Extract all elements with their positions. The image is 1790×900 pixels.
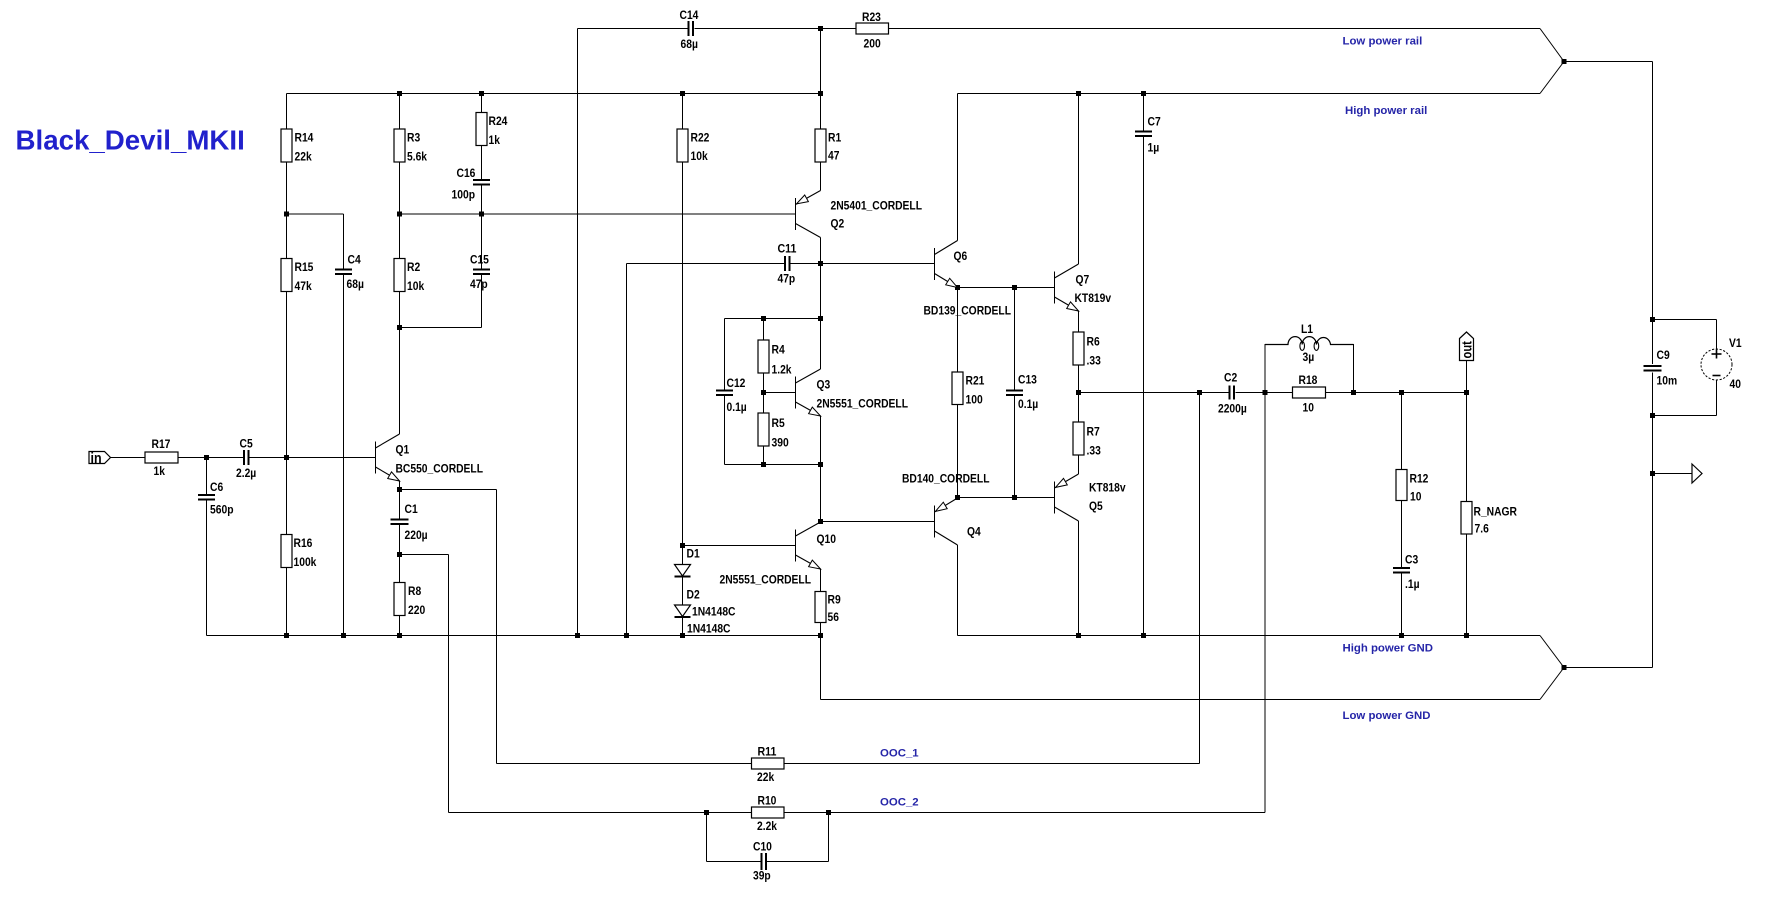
junction C3 bottom [1399, 633, 1404, 638]
svg-text:R9: R9 [828, 593, 841, 607]
svg-text:0.1µ: 0.1µ [1018, 397, 1038, 411]
svg-text:Q6: Q6 [954, 249, 968, 263]
wire Q3 base y=392.5 [764, 392, 796, 394]
junction C10 left [704, 810, 709, 815]
svg-text:Q5: Q5 [1089, 499, 1103, 513]
svg-text:200: 200 [864, 37, 881, 51]
junction rails convergence [1562, 59, 1567, 64]
svg-text:10: 10 [1410, 490, 1421, 504]
svg-text:BC550_CORDELL: BC550_CORDELL [396, 462, 484, 476]
svg-text:R8: R8 [408, 584, 421, 598]
wire R12/C3 column x=1401.5 [1401, 393, 1403, 636]
capacitor C16 [473, 179, 490, 181]
svg-text:1N4148C: 1N4148C [692, 605, 736, 619]
svg-text:R4: R4 [772, 343, 785, 357]
svg-text:High power rail: High power rail [1345, 105, 1427, 117]
resistor R_NAGR [1461, 502, 1472, 535]
port out [1460, 332, 1474, 361]
svg-text:BD139_CORDELL: BD139_CORDELL [924, 304, 1012, 318]
wire GND to V1 column [1564, 416, 1653, 668]
wire Q7/Q5/R6/R7 column x=1078.5 [1078, 94, 1080, 636]
wire Q4 collector x=957.5 [957, 545, 959, 636]
svg-text:Black_Devil_MKII: Black_Devil_MKII [16, 125, 245, 156]
svg-text:0.1µ: 0.1µ [727, 400, 747, 414]
junction Q2 collector node [818, 261, 823, 266]
svg-text:C6: C6 [210, 480, 223, 494]
resistor R5 [758, 413, 769, 446]
svg-text:3µ: 3µ [1303, 350, 1315, 364]
wire C6 column x=206.5 [206, 458, 208, 636]
svg-text:C3: C3 [1405, 553, 1418, 567]
svg-text:R_NAGR: R_NAGR [1474, 505, 1518, 519]
junction R_NAGR bottom [1464, 633, 1469, 638]
svg-text:C13: C13 [1018, 373, 1037, 387]
junction Q7 collector rail [1076, 91, 1081, 96]
svg-text:C11: C11 [778, 242, 797, 256]
wire high power rail (y=93.5) [287, 62, 1565, 94]
junction OOC_1 tap [1197, 390, 1202, 395]
svg-text:V1: V1 [1729, 336, 1742, 350]
wire C10 branch [707, 813, 829, 862]
resistor R1 [815, 129, 826, 162]
wire C12/R5 bottom y=464.5 [725, 464, 821, 466]
junction out port node [1464, 390, 1469, 395]
wire output stub to arrow y=473.5 [1653, 473, 1692, 475]
wire OOC_2 column x=1265 [1264, 393, 1266, 813]
resistor R21 [952, 372, 963, 405]
svg-text:C7: C7 [1148, 115, 1161, 129]
junction C10 right [826, 810, 831, 815]
resistor R6 [1073, 332, 1084, 365]
svg-text:2N5401_CORDELL: 2N5401_CORDELL [831, 199, 923, 213]
wire out-port/R_NAGR column x=1466.5 [1466, 361, 1468, 636]
svg-text:10k: 10k [407, 279, 424, 293]
junction C13 top [1012, 285, 1017, 290]
wire bias row y=214 [287, 213, 796, 215]
junction C6 top [204, 455, 209, 460]
junction R5 bottom node [761, 462, 766, 467]
svg-text:D1: D1 [687, 547, 700, 561]
svg-text:Low power rail: Low power rail [1343, 36, 1423, 48]
svg-text:C15: C15 [470, 253, 489, 267]
resistor R22 [677, 129, 688, 162]
svg-text:1N4148C: 1N4148C [687, 622, 731, 636]
svg-text:R18: R18 [1299, 373, 1318, 387]
transistor Q10 (2N5551, NPN) [796, 522, 821, 569]
wire C11 node y=263.5 [627, 263, 935, 265]
junction Q10 collector node [818, 519, 823, 524]
svg-text:Q3: Q3 [817, 378, 831, 392]
wire Q1 base y=457.5 [111, 457, 376, 459]
svg-text:R7: R7 [1087, 425, 1100, 439]
capacitor C15 [473, 269, 490, 271]
capacitor C11 [784, 256, 786, 271]
junction Q4 emitter node [955, 495, 960, 500]
wire C4 column x=343.5 [343, 214, 345, 636]
svg-text:OOC_1: OOC_1 [880, 748, 919, 760]
capacitor C1 [391, 519, 409, 521]
svg-text:2.2k: 2.2k [757, 819, 777, 833]
svg-text:47p: 47p [778, 272, 796, 286]
svg-text:C16: C16 [457, 166, 476, 180]
svg-text:Q2: Q2 [831, 217, 845, 231]
svg-text:D2: D2 [687, 588, 700, 602]
wire V1 branch [1653, 320, 1717, 416]
svg-text:Q10: Q10 [817, 532, 837, 546]
svg-text:R11: R11 [758, 745, 777, 759]
svg-text:OOC_2: OOC_2 [880, 797, 919, 809]
capacitor C3 [1393, 567, 1410, 569]
svg-text:R5: R5 [772, 416, 785, 430]
junction C7 bottom [1141, 633, 1146, 638]
svg-text:40: 40 [1730, 377, 1741, 391]
svg-text:R12: R12 [1410, 472, 1429, 486]
svg-text:R3: R3 [407, 131, 420, 145]
transistor Q3 (2N5551, NPN) [796, 369, 821, 416]
svg-text:2N5551_CORDELL: 2N5551_CORDELL [817, 397, 909, 411]
capacitor C5 [243, 450, 245, 465]
resistor R23 [856, 23, 889, 34]
svg-text:220µ: 220µ [405, 528, 428, 542]
junction V1 top [1650, 317, 1655, 322]
svg-text:C2: C2 [1224, 371, 1237, 385]
transistor Q6 (BD139, NPN) [935, 241, 958, 288]
wire C9 column [1652, 320, 1654, 416]
voltage source V1 [1701, 349, 1732, 380]
junction R16 bottom [284, 633, 289, 638]
svg-text:2N5551_CORDELL: 2N5551_CORDELL [720, 573, 812, 587]
resistor R16 [281, 535, 292, 568]
svg-text:10m: 10m [1657, 374, 1678, 388]
wire Q1 emitter to feedback y=489.5 [400, 490, 497, 764]
svg-text:39p: 39p [753, 869, 771, 883]
junction R3 top [397, 91, 402, 96]
junction R9 bottom / low GND feed [818, 633, 823, 638]
wire R1/Q2/Q3 column x=820.5 [820, 29, 822, 636]
svg-text:KT818v: KT818v [1089, 481, 1126, 495]
junction R22 top [680, 91, 685, 96]
svg-text:C14: C14 [680, 8, 699, 22]
resistor R12 [1396, 470, 1407, 501]
capacitor C14 [688, 21, 690, 36]
wire Q6 emitter / R21 column x=957.5 [957, 288, 959, 498]
svg-text:R14: R14 [295, 131, 314, 145]
wire low power GND (y=699.5) [821, 636, 1565, 700]
wire R22/diode column x=682.5 [682, 94, 684, 636]
svg-text:R15: R15 [295, 260, 314, 274]
svg-text:R2: R2 [407, 260, 420, 274]
resistor R11 [752, 758, 785, 769]
wire Q10 collector to Q4 base y=521.5 [821, 521, 935, 523]
svg-text:10: 10 [1303, 401, 1314, 415]
resistor R14 [281, 129, 292, 162]
wire OOC_2 row y=812.5 [449, 812, 1266, 814]
junction C1/R8 node [397, 552, 402, 557]
wire OOC_1 row y=763.5 [497, 763, 1200, 765]
svg-text:High power GND: High power GND [1343, 643, 1434, 655]
resistor R10 [752, 807, 785, 818]
capacitor C13 [1006, 390, 1023, 392]
svg-text:1µ: 1µ [1148, 141, 1160, 155]
capacitor C7 [1135, 131, 1152, 133]
svg-text:1.2k: 1.2k [772, 363, 792, 377]
junction Q5 collector GND [1076, 633, 1081, 638]
svg-text:in: in [91, 450, 102, 467]
wire rail to V1 column [1564, 62, 1653, 320]
svg-text:100k: 100k [294, 555, 317, 569]
resistor R8 [394, 583, 405, 616]
capacitor C6 [198, 494, 215, 496]
wire output rail y=392.5 [1079, 392, 1467, 394]
svg-text:R16: R16 [294, 536, 313, 550]
wire R3/R2/Q1 column x=399.5 [399, 94, 401, 636]
svg-text:out: out [1460, 341, 1475, 359]
svg-text:10k: 10k [691, 149, 708, 163]
transistor Q2 (2N5401, PNP) [796, 191, 821, 238]
junction x577 ground [575, 633, 580, 638]
wire low power rail (top, y=28.5) [578, 29, 1565, 62]
svg-text:Q1: Q1 [396, 443, 410, 457]
svg-text:KT819v: KT819v [1075, 291, 1112, 305]
junction C7 top [1141, 91, 1146, 96]
wire C12/R4 top y=318.5 [725, 318, 821, 320]
svg-text:Q4: Q4 [967, 525, 981, 539]
svg-text:2.2µ: 2.2µ [236, 466, 256, 480]
junction C2/L1 node [1263, 390, 1268, 395]
capacitor C9 [1644, 365, 1662, 367]
svg-text:BD140_CORDELL: BD140_CORDELL [902, 472, 990, 486]
svg-text:C5: C5 [240, 437, 253, 451]
resistor R7 [1073, 422, 1084, 455]
inductor L1 [1265, 337, 1354, 351]
transistor Q5 (KT818v, PNP) [1055, 474, 1079, 521]
svg-text:C10: C10 [753, 840, 772, 854]
wire R4/R5 column x=763.5 [763, 319, 765, 465]
svg-text:.1µ: .1µ [1405, 577, 1420, 591]
wire C12 column x=724.5 [724, 319, 726, 465]
junction C5/R15 node [284, 455, 289, 460]
junction D1 top node [680, 543, 685, 548]
svg-text:5.6k: 5.6k [407, 150, 427, 164]
svg-text:Low power GND: Low power GND [1343, 710, 1431, 722]
svg-text:68µ: 68µ [347, 277, 364, 291]
junction R4 top node [761, 316, 766, 321]
capacitor C4 [335, 269, 352, 271]
wire L1 branch stubs [1265, 344, 1354, 393]
svg-text:100: 100 [966, 393, 983, 407]
transistor Q7 (KT819v, NPN) [1055, 264, 1079, 311]
svg-text:C9: C9 [1657, 348, 1670, 362]
svg-text:R22: R22 [691, 131, 710, 145]
junction Q2-Q3 column y=318.5 [818, 316, 823, 321]
junction R24 top [479, 91, 484, 96]
wire high power GND (y=635.5) [207, 636, 1565, 668]
svg-text:22k: 22k [757, 770, 774, 784]
capacitor C10 [761, 853, 763, 870]
svg-text:56: 56 [828, 610, 839, 624]
transistor Q4 (BD140, PNP) [935, 498, 958, 545]
junction C4 bottom [341, 633, 346, 638]
wire D1 to Q10 base y=545.5 [683, 545, 796, 547]
svg-text:47k: 47k [295, 279, 312, 293]
wire Q6 emitter to Q7 base y=287.5 [958, 287, 1055, 289]
capacitor C12 [716, 390, 733, 392]
diode D1 (1N4148) [675, 565, 691, 578]
resistor R2 [394, 259, 405, 292]
junction Q3 emitter column y=464.5 [818, 462, 823, 467]
svg-text:47: 47 [828, 149, 839, 163]
resistor R17 [145, 452, 178, 463]
wire C13 column x=1014.5 [1014, 288, 1016, 498]
svg-text:.33: .33 [1087, 444, 1101, 458]
junction R1 top [818, 91, 823, 96]
wire OOC_1 column x=1199.5 [1199, 393, 1201, 764]
junction C13 bottom [1012, 495, 1017, 500]
resistor R24 [476, 113, 487, 146]
svg-text:47p: 47p [470, 277, 488, 291]
svg-text:R23: R23 [862, 10, 881, 24]
junction GND convergence [1562, 665, 1567, 670]
wire C14-left to signal ground x=577.5 [577, 29, 579, 636]
junction R24/C16/C15 [479, 212, 484, 217]
port in [89, 452, 111, 464]
svg-text:C12: C12 [727, 376, 746, 390]
wire C1 bottom to R10 feed y=554.5 [400, 555, 449, 813]
svg-text:2200µ: 2200µ [1218, 402, 1247, 416]
resistor R9 [815, 592, 826, 623]
wire R21 bottom to Q5 base y=497.5 [958, 497, 1055, 499]
svg-text:1k: 1k [489, 133, 500, 147]
wire Q6 collector x=957.5 [957, 94, 959, 241]
resistor R4 [758, 340, 769, 373]
svg-text:R1: R1 [828, 131, 841, 145]
junction output stub [1650, 471, 1655, 476]
resistor R3 [394, 129, 405, 162]
svg-text:R24: R24 [489, 114, 508, 128]
junction R8 bottom [397, 633, 402, 638]
svg-text:220: 220 [408, 603, 425, 617]
wire C11-left ground column x=626.5 [626, 264, 628, 636]
wire R14 column x=286.5 [286, 94, 288, 636]
svg-text:R17: R17 [152, 437, 171, 451]
wire R2 bottom to C15 bottom y=327.5 [400, 275, 482, 328]
junction R4/R5 node [761, 390, 766, 395]
svg-text:R21: R21 [966, 374, 985, 388]
junction C11-ground [624, 633, 629, 638]
resistor R15 [281, 259, 292, 292]
svg-text:R10: R10 [758, 794, 777, 808]
svg-text:7.6: 7.6 [1475, 522, 1489, 536]
junction D2 bottom [680, 633, 685, 638]
junction C14/R23 node [818, 26, 823, 31]
svg-text:100p: 100p [452, 188, 476, 202]
svg-text:L1: L1 [1301, 322, 1313, 336]
junction R3/R2 [397, 212, 402, 217]
junction R12 top [1399, 390, 1404, 395]
wire C7 column x=1143.5 [1143, 94, 1145, 636]
svg-text:R6: R6 [1087, 335, 1100, 349]
junction R6/R7 output node [1076, 390, 1081, 395]
transistor Q1 (BC550, NPN) [376, 434, 400, 481]
svg-text:390: 390 [772, 436, 789, 450]
svg-text:68µ: 68µ [681, 37, 698, 51]
diode D2 (1N4148) [675, 605, 691, 618]
junction R2 bottom node [397, 325, 402, 330]
junction Q1 emitter node [397, 487, 402, 492]
wire R24/C16 column x=481.5 [481, 94, 483, 269]
junction V1 bottom [1650, 413, 1655, 418]
svg-text:Q7: Q7 [1076, 273, 1090, 287]
capacitor C2 [1229, 386, 1231, 400]
svg-text:C4: C4 [348, 253, 361, 267]
junction L1/R18 right node [1351, 390, 1356, 395]
svg-text:1k: 1k [154, 464, 165, 478]
svg-text:C1: C1 [405, 502, 418, 516]
junction Q6 emitter node [955, 285, 960, 290]
svg-text:22k: 22k [295, 150, 312, 164]
svg-text:560p: 560p [210, 503, 234, 517]
output arrow (open triangle) [1692, 464, 1702, 483]
resistor R18 [1293, 387, 1326, 398]
svg-text:.33: .33 [1087, 354, 1101, 368]
junction R14/R15 [284, 212, 289, 217]
